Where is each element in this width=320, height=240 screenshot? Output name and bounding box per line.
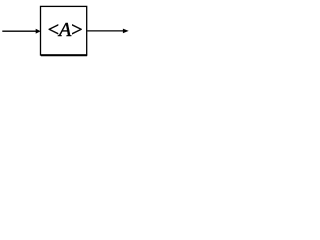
svg-text:<A>: <A> bbox=[48, 19, 83, 41]
